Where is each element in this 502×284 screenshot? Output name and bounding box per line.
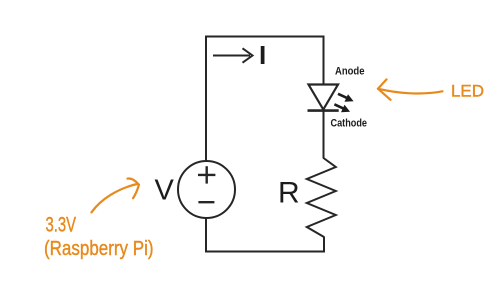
plus sign [198,166,215,183]
minus sign [198,201,214,203]
wire left lower [205,218,207,253]
svg-text:3.3V: 3.3V [46,214,77,237]
wire right upper (to LED anode) [323,36,325,86]
annotation arrow to LED (orange) [378,79,443,99]
LED emission arrow 2 [334,104,350,112]
voltage source V1 [178,161,235,218]
resistor R zigzag [307,158,336,237]
wire resistor to bottom [323,237,325,253]
svg-text:LED: LED [451,82,484,101]
svg-text:(Raspberry Pi): (Raspberry Pi) [44,238,154,260]
annotation arrow to V source (orange) [92,178,139,212]
wire left upper [205,36,207,162]
svg-text:V: V [155,175,175,207]
svg-text:Anode: Anode [335,66,365,78]
LED D1 triangle [309,85,339,110]
svg-text:I: I [259,40,266,70]
svg-text:Cathode: Cathode [331,118,368,130]
current arrow I [213,48,253,62]
wire bottom [205,251,325,253]
LED cathode bar [308,109,339,112]
wire top [205,36,325,38]
LED emission arrow 1 [338,94,354,102]
wire LED cathode to resistor [323,111,325,159]
svg-text:R: R [278,176,300,209]
